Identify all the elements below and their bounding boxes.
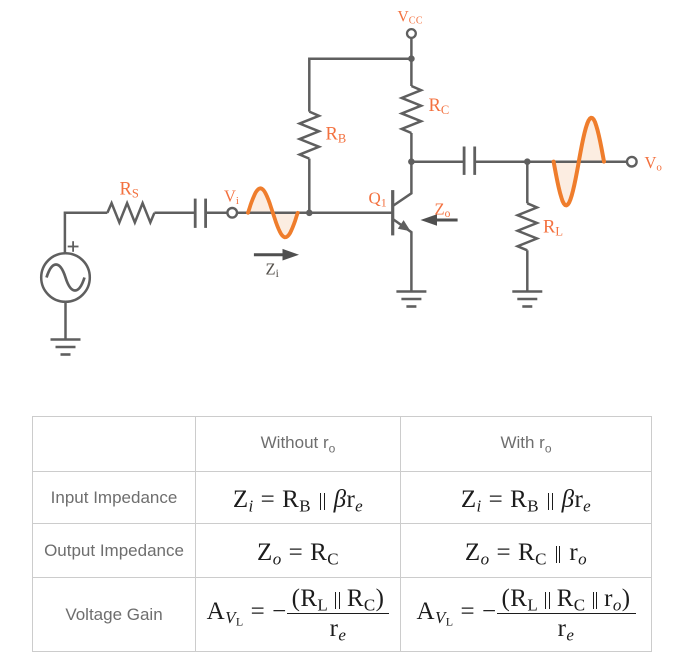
svg-text:RC: RC (429, 96, 450, 117)
wire C1 to Vi terminal (206, 212, 228, 215)
junction collector node (408, 158, 415, 165)
wire C2 to output node (475, 160, 528, 163)
resistor RB (300, 112, 319, 159)
wire source to RS (65, 213, 108, 254)
svg-text:Q1: Q1 (369, 189, 387, 210)
output sine wave fill (554, 118, 604, 206)
AC source V1 (41, 253, 90, 302)
svg-text:RS: RS (120, 180, 139, 201)
wire RL bottom (526, 250, 529, 291)
wire output node to Vo terminal (527, 160, 627, 163)
wire top rail to RB (309, 59, 411, 112)
wire RS to C1 (154, 212, 195, 215)
output sine wave stroke (554, 118, 604, 206)
svg-text:VCC: VCC (398, 9, 424, 27)
junction output node (524, 158, 531, 165)
transistor Q1 (391, 190, 394, 235)
source plus sign (68, 241, 79, 252)
transistor Q1 emitter arrow (398, 220, 411, 231)
svg-text:RL: RL (543, 218, 563, 239)
AC source sine (47, 265, 85, 291)
arrow Zo (421, 214, 458, 226)
capacitor C1 (195, 199, 205, 228)
svg-text:Vo: Vo (645, 153, 663, 173)
ground at emitter (396, 292, 426, 307)
resistor RL (518, 203, 537, 250)
capacitor C2 (464, 147, 475, 175)
input sine wave fill (248, 188, 298, 237)
terminal Vo (627, 157, 637, 167)
wire RC bottom to collector node (410, 133, 413, 162)
svg-text:Vi: Vi (224, 187, 239, 207)
junction Vcc rail (408, 55, 415, 62)
resistor RS (107, 203, 154, 222)
ground at RL (512, 292, 542, 307)
wire emitter down (393, 219, 411, 291)
wire RB bottom (308, 159, 311, 213)
wire Vcc to RC (410, 59, 413, 86)
terminal Vcc (407, 29, 416, 38)
svg-text:Zi: Zi (266, 260, 279, 281)
junction base node (306, 210, 313, 217)
wire collector node to capacitor C2 (411, 160, 464, 163)
input sine wave stroke (248, 188, 298, 237)
wire output node to RL (526, 162, 529, 204)
svg-text:Zo: Zo (435, 200, 451, 221)
svg-text:RB: RB (326, 125, 347, 146)
resistor RC (402, 86, 421, 133)
wire source bottom (64, 302, 67, 340)
wire Vcc stub (410, 39, 413, 59)
arrow Zi (254, 249, 299, 261)
terminal Vi (227, 208, 237, 218)
wire base (237, 212, 393, 215)
ground at source (51, 340, 81, 355)
wire collector up (393, 162, 411, 206)
